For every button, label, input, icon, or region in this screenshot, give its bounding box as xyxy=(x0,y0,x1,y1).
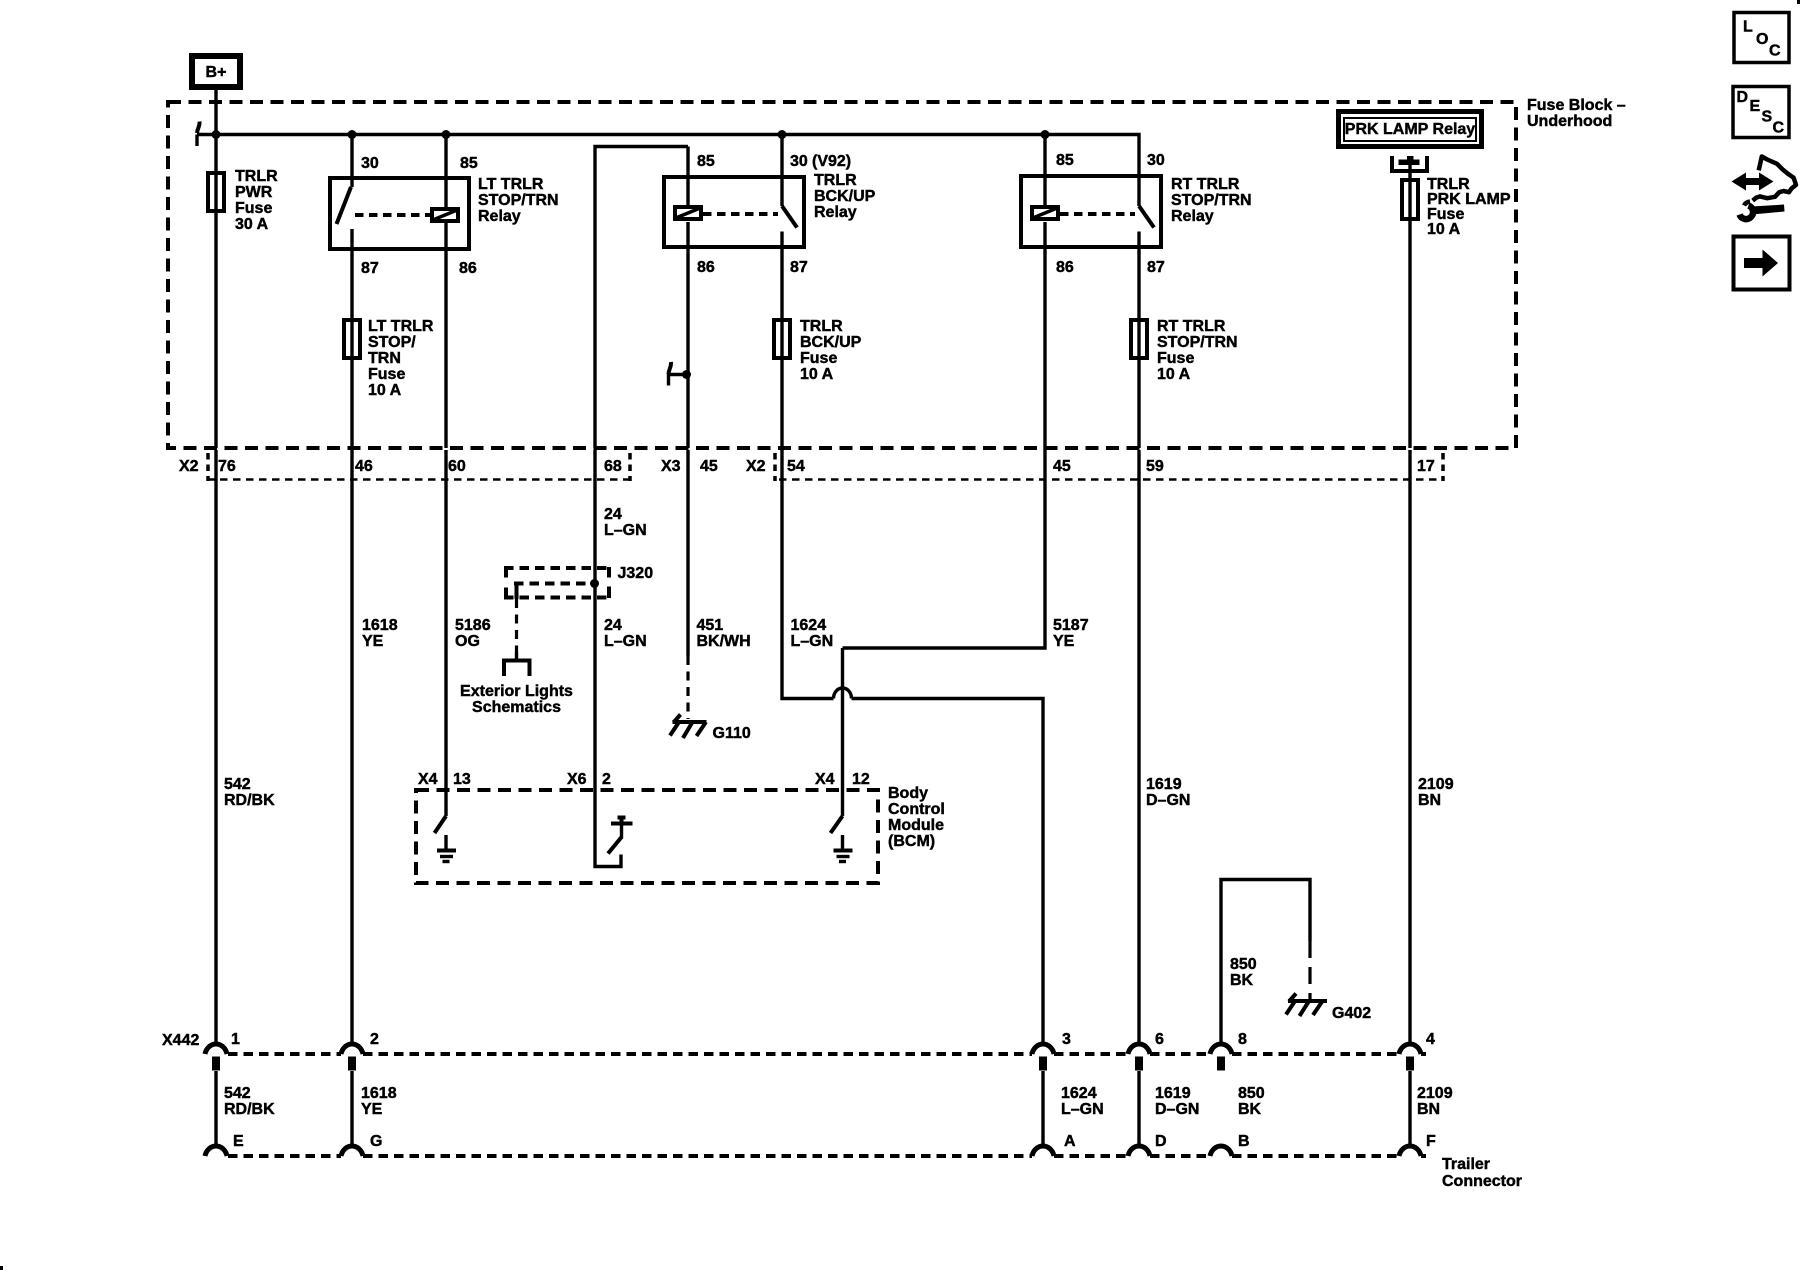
svg-text:Fuse Block –: Fuse Block – xyxy=(1527,97,1626,114)
svg-text:10 A: 10 A xyxy=(1157,366,1191,383)
svg-text:17: 17 xyxy=(1417,458,1435,475)
svg-text:X2: X2 xyxy=(179,458,199,475)
svg-text:1624: 1624 xyxy=(791,617,827,634)
svg-text:LT TRLR: LT TRLR xyxy=(478,176,544,193)
svg-text:12: 12 xyxy=(852,771,870,788)
svg-text:A: A xyxy=(1064,1133,1076,1150)
svg-text:1619: 1619 xyxy=(1155,1085,1191,1102)
svg-text:B: B xyxy=(1238,1133,1250,1150)
svg-text:PRK LAMP Relay: PRK LAMP Relay xyxy=(1345,121,1476,138)
svg-text:F: F xyxy=(1426,1133,1436,1150)
svg-text:85: 85 xyxy=(1056,152,1074,169)
svg-text:Relay: Relay xyxy=(1171,208,1214,225)
svg-text:(V92): (V92) xyxy=(812,153,851,170)
svg-text:Trailer: Trailer xyxy=(1442,1156,1490,1173)
svg-text:68: 68 xyxy=(604,458,622,475)
svg-text:Control: Control xyxy=(888,801,945,818)
svg-text:Relay: Relay xyxy=(478,208,521,225)
svg-text:D–GN: D–GN xyxy=(1146,792,1190,809)
svg-text:TRLR: TRLR xyxy=(235,168,278,185)
svg-text:Relay: Relay xyxy=(814,204,857,221)
svg-text:4: 4 xyxy=(1426,1031,1435,1048)
svg-text:RD/BK: RD/BK xyxy=(224,792,275,809)
svg-text:STOP/: STOP/ xyxy=(368,334,416,351)
svg-text:(BCM): (BCM) xyxy=(888,833,935,850)
svg-text:30: 30 xyxy=(361,155,379,172)
svg-text:2109: 2109 xyxy=(1418,776,1454,793)
svg-text:D: D xyxy=(1737,89,1749,106)
svg-text:542: 542 xyxy=(224,1085,251,1102)
svg-text:STOP/TRN: STOP/TRN xyxy=(478,192,559,209)
svg-text:5186: 5186 xyxy=(455,617,491,634)
svg-text:1618: 1618 xyxy=(362,617,398,634)
svg-text:BK/WH: BK/WH xyxy=(697,633,751,650)
svg-text:850: 850 xyxy=(1230,956,1257,973)
svg-text:1619: 1619 xyxy=(1146,776,1182,793)
svg-text:Fuse: Fuse xyxy=(1157,350,1194,367)
svg-text:RT TRLR: RT TRLR xyxy=(1157,318,1226,335)
svg-text:59: 59 xyxy=(1146,458,1164,475)
svg-text:L: L xyxy=(1743,19,1753,36)
svg-text:850: 850 xyxy=(1238,1085,1265,1102)
svg-text:BCK/UP: BCK/UP xyxy=(800,334,862,351)
svg-text:L–GN: L–GN xyxy=(604,633,647,650)
svg-text:Underhood: Underhood xyxy=(1527,113,1612,130)
svg-text:TRLR: TRLR xyxy=(800,318,843,335)
svg-text:46: 46 xyxy=(355,458,373,475)
svg-text:C: C xyxy=(1773,120,1785,137)
svg-text:X2: X2 xyxy=(746,458,766,475)
svg-text:30: 30 xyxy=(790,153,808,170)
svg-text:TRLR: TRLR xyxy=(814,172,857,189)
svg-text:24: 24 xyxy=(604,506,622,523)
svg-text:10 A: 10 A xyxy=(368,382,402,399)
svg-text:85: 85 xyxy=(697,153,715,170)
svg-text:O: O xyxy=(1756,31,1768,48)
svg-text:Fuse: Fuse xyxy=(800,350,837,367)
svg-text:13: 13 xyxy=(453,771,471,788)
svg-text:2: 2 xyxy=(602,771,611,788)
svg-text:C: C xyxy=(1769,43,1781,60)
svg-text:YE: YE xyxy=(1053,633,1075,650)
svg-text:86: 86 xyxy=(459,260,477,277)
svg-text:60: 60 xyxy=(448,458,466,475)
svg-text:54: 54 xyxy=(787,458,805,475)
svg-text:Module: Module xyxy=(888,817,944,834)
svg-text:30 A: 30 A xyxy=(235,216,269,233)
svg-text:YE: YE xyxy=(362,633,384,650)
svg-text:BK: BK xyxy=(1238,1101,1262,1118)
svg-text:G110: G110 xyxy=(713,725,751,742)
svg-text:87: 87 xyxy=(790,259,808,276)
svg-text:87: 87 xyxy=(361,260,379,277)
svg-text:542: 542 xyxy=(224,776,251,793)
svg-text:G402: G402 xyxy=(1332,1005,1371,1022)
svg-text:451: 451 xyxy=(697,617,724,634)
svg-text:J320: J320 xyxy=(618,565,654,582)
svg-text:OG: OG xyxy=(455,633,480,650)
svg-text:45: 45 xyxy=(1053,458,1071,475)
svg-text:YE: YE xyxy=(361,1101,383,1118)
svg-text:D–GN: D–GN xyxy=(1155,1101,1199,1118)
svg-text:30: 30 xyxy=(1147,152,1165,169)
svg-text:85: 85 xyxy=(460,155,478,172)
svg-text:45: 45 xyxy=(700,458,718,475)
svg-text:BN: BN xyxy=(1418,792,1441,809)
svg-text:10 A: 10 A xyxy=(1427,221,1461,238)
svg-text:3: 3 xyxy=(1062,1031,1071,1048)
svg-text:L–GN: L–GN xyxy=(1061,1101,1104,1118)
svg-text:L–GN: L–GN xyxy=(791,633,834,650)
svg-text:LT TRLR: LT TRLR xyxy=(368,318,434,335)
svg-text:Exterior Lights: Exterior Lights xyxy=(460,683,573,700)
svg-text:L–GN: L–GN xyxy=(604,522,647,539)
svg-text:E: E xyxy=(1750,98,1761,115)
svg-text:Fuse: Fuse xyxy=(235,200,272,217)
svg-text:RD/BK: RD/BK xyxy=(224,1101,275,1118)
svg-text:E: E xyxy=(233,1133,244,1150)
svg-text:RT TRLR: RT TRLR xyxy=(1171,176,1240,193)
svg-text:STOP/TRN: STOP/TRN xyxy=(1157,334,1238,351)
svg-text:86: 86 xyxy=(697,259,715,276)
svg-text:Fuse: Fuse xyxy=(368,366,405,383)
svg-text:24: 24 xyxy=(604,617,622,634)
svg-text:76: 76 xyxy=(218,458,236,475)
svg-text:S: S xyxy=(1762,109,1773,126)
svg-text:BN: BN xyxy=(1417,1101,1440,1118)
svg-text:TRN: TRN xyxy=(368,350,401,367)
svg-text:D: D xyxy=(1155,1133,1167,1150)
svg-text:Schematics: Schematics xyxy=(472,699,561,716)
svg-text:B+: B+ xyxy=(206,64,227,81)
svg-text:BCK/UP: BCK/UP xyxy=(814,188,876,205)
svg-text:Body: Body xyxy=(888,785,928,802)
svg-text:10 A: 10 A xyxy=(800,366,834,383)
svg-text:1: 1 xyxy=(231,1031,240,1048)
svg-text:6: 6 xyxy=(1155,1031,1164,1048)
svg-text:2: 2 xyxy=(370,1031,379,1048)
svg-text:PWR: PWR xyxy=(235,184,273,201)
svg-text:86: 86 xyxy=(1056,259,1074,276)
svg-text:X442: X442 xyxy=(162,1032,199,1049)
svg-text:Connector: Connector xyxy=(1442,1173,1522,1190)
svg-text:1618: 1618 xyxy=(361,1085,397,1102)
svg-text:1624: 1624 xyxy=(1061,1085,1097,1102)
svg-text:BK: BK xyxy=(1230,972,1254,989)
svg-text:87: 87 xyxy=(1147,259,1165,276)
svg-text:STOP/TRN: STOP/TRN xyxy=(1171,192,1252,209)
svg-text:G: G xyxy=(370,1133,382,1150)
svg-text:X4: X4 xyxy=(418,771,438,788)
svg-text:X6: X6 xyxy=(567,771,587,788)
svg-text:X3: X3 xyxy=(661,458,681,475)
svg-text:X4: X4 xyxy=(815,771,835,788)
svg-text:8: 8 xyxy=(1238,1031,1247,1048)
svg-text:2109: 2109 xyxy=(1417,1085,1453,1102)
svg-text:5187: 5187 xyxy=(1053,617,1089,634)
